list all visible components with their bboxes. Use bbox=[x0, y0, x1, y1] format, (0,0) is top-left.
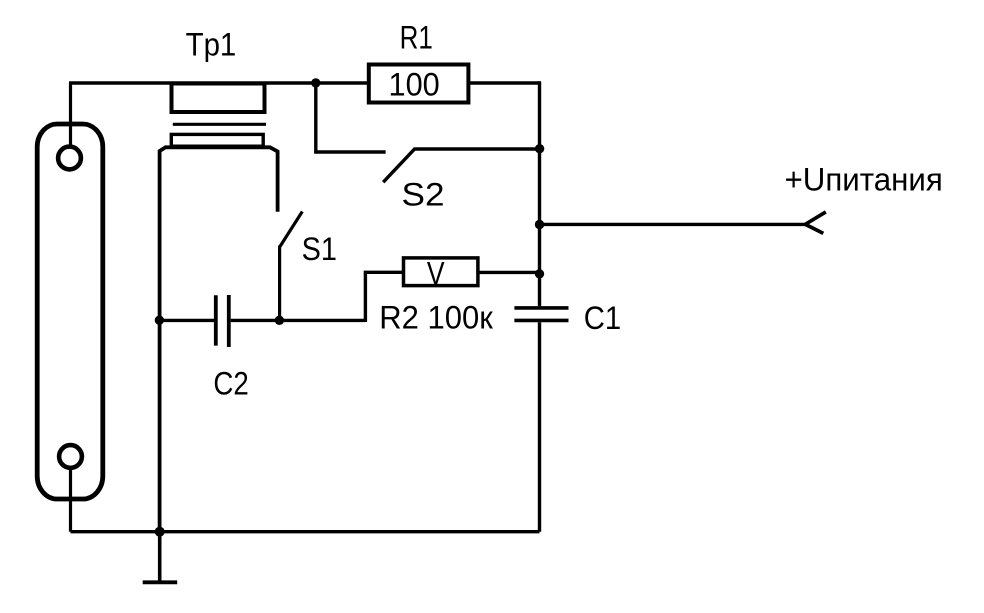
wire: left rail to C2 left plate bbox=[160, 319, 214, 322]
lamp bottom electrode circle bbox=[59, 445, 82, 468]
junction dot R2/rail bbox=[535, 269, 544, 278]
wire: R2 left leg bbox=[365, 272, 403, 322]
capacitor C2 right plate bbox=[227, 295, 231, 347]
svg-text:R2 100к: R2 100к bbox=[379, 299, 493, 335]
transformer Tp1 secondary lid bbox=[171, 134, 263, 146]
junction dot +U/rail bbox=[535, 220, 544, 229]
wire: top rail left segment bbox=[69, 81, 369, 84]
svg-text:S1: S1 bbox=[302, 231, 337, 267]
capacitor C1 top plate bbox=[514, 306, 568, 310]
ground bar bbox=[143, 580, 178, 584]
svg-text:+Uпитания: +Uпитания bbox=[785, 162, 943, 198]
svg-text:100: 100 bbox=[389, 67, 440, 103]
resistor R1 box bbox=[369, 65, 469, 103]
lamp EL1 (fluorescent tube outline) bbox=[37, 124, 103, 499]
wire: lamp bottom lead bbox=[69, 468, 72, 532]
junction dot S1/C2 bbox=[275, 316, 284, 325]
wire: bottom rail bbox=[71, 530, 540, 533]
wire: R2 right to rail bbox=[478, 271, 540, 274]
wire: +U supply line bbox=[540, 223, 806, 226]
svg-text:C2: C2 bbox=[213, 366, 248, 402]
switch S2 blade bbox=[383, 148, 415, 182]
svg-text:S2: S2 bbox=[402, 177, 445, 213]
transformer Tp1 primary winding bbox=[172, 84, 265, 113]
connector chevron bbox=[805, 212, 826, 234]
transformer Tp1 core bbox=[173, 123, 266, 126]
ground stub bbox=[158, 532, 162, 582]
wire: lamp top lead to top rail bbox=[69, 83, 72, 147]
capacitor C2 left plate bbox=[214, 295, 218, 345]
transformer Tp1 secondary body bbox=[160, 147, 278, 531]
wire: S1 lower contact to C2 node bbox=[278, 246, 281, 321]
junction dot top rail / S2 branch bbox=[311, 78, 320, 87]
wire: S2 branch down and right bbox=[316, 83, 386, 152]
main right rail lower segment bbox=[538, 322, 541, 531]
lamp top electrode circle bbox=[58, 147, 81, 170]
junction dot ground node bbox=[155, 527, 165, 537]
capacitor C1 bottom plate bbox=[514, 319, 568, 323]
wire: C2 right plate to R2 left leg bbox=[231, 319, 366, 322]
svg-text:Tp1: Tp1 bbox=[186, 27, 237, 63]
junction dot C2 left bbox=[155, 316, 164, 325]
svg-text:R1: R1 bbox=[400, 19, 433, 55]
wire: S2 to rail bbox=[415, 147, 540, 150]
wire: top rail right segment (R1 to corner) bbox=[468, 81, 539, 84]
junction dot S2/rail bbox=[535, 144, 544, 153]
svg-text:V: V bbox=[427, 256, 445, 292]
switch S1 blade bbox=[280, 212, 302, 247]
svg-text:C1: C1 bbox=[584, 300, 621, 336]
resistor R2 box bbox=[404, 258, 478, 286]
main right rail upper segment bbox=[538, 81, 541, 306]
